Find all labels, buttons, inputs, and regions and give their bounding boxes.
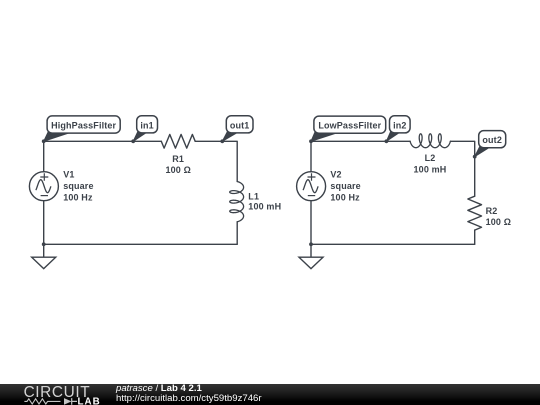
net flag out2 (475, 131, 506, 157)
footer bar (0, 384, 540, 405)
wire bottom rail right circuit (311, 243, 475, 245)
svg-text:out2: out2 (482, 135, 502, 145)
node in2 junction (385, 139, 389, 143)
svg-text:out1: out1 (230, 120, 250, 130)
ground GND left (32, 244, 56, 268)
net flag in1 (133, 116, 157, 142)
inductor L1 (230, 182, 244, 222)
svg-text:L1: L1 (248, 192, 259, 202)
resistor R1 (161, 134, 195, 148)
svg-text:100 Ω: 100 Ω (486, 217, 511, 227)
node in1 junction (131, 139, 135, 143)
svg-text:100 mH: 100 mH (248, 201, 281, 211)
svg-text:100 Hz: 100 Hz (63, 193, 93, 203)
net flag in2 (386, 116, 410, 142)
svg-text:in1: in1 (140, 120, 153, 130)
svg-text:100 mH: 100 mH (414, 164, 447, 174)
node out2 junction (473, 155, 477, 159)
svg-text:HighPassFilter: HighPassFilter (51, 121, 116, 131)
wire L2 right terminal to out2 corner down to R2 (450, 141, 474, 196)
svg-text:L2: L2 (425, 153, 436, 163)
wire V2 top to in2 node (311, 140, 386, 142)
wire in2 node to L2 left terminal (386, 140, 410, 142)
node out1 junction (220, 139, 224, 143)
svg-text:square: square (63, 181, 93, 191)
wire R1 right terminal to out1 corner (195, 141, 237, 181)
resistor R2 (468, 196, 482, 230)
svg-text:100 Ω: 100 Ω (165, 165, 190, 175)
inductor L2 (410, 134, 450, 148)
voltage source V2 (297, 172, 326, 201)
wire V1 top to in1 node (44, 140, 134, 142)
CircuitLab logo (0, 384, 112, 405)
svg-text:LAB: LAB (78, 397, 101, 405)
footer title and url text (116, 384, 262, 405)
node HighPassFilter junction (42, 139, 46, 143)
svg-text:100 Hz: 100 Hz (330, 193, 360, 203)
svg-text:LowPassFilter: LowPassFilter (318, 121, 381, 131)
logo resistor glyph (24, 399, 60, 404)
wire in1 node to R1 left terminal (133, 140, 161, 142)
wire V2 plus terminal (310, 141, 312, 171)
wire L1 bottom to bottom rail (236, 222, 238, 245)
wire bottom rail left circuit (44, 243, 238, 245)
svg-text:R1: R1 (172, 154, 184, 164)
logo diode glyph (64, 398, 72, 405)
node LowPassFilter junction (309, 139, 313, 143)
voltage source V1 (29, 172, 58, 201)
wire R2 bottom to bottom rail (474, 230, 476, 244)
net flag HighPassFilter (44, 116, 121, 141)
wire V1 plus terminal (43, 141, 45, 171)
node ground junction right (309, 242, 313, 246)
svg-text:V2: V2 (330, 169, 341, 179)
svg-text:square: square (330, 181, 360, 191)
svg-text:V1: V1 (63, 169, 74, 179)
wire V1 minus terminal to ground junction (43, 201, 45, 245)
svg-text:in2: in2 (393, 120, 406, 130)
net flag LowPassFilter (311, 116, 386, 141)
node ground junction left (42, 242, 46, 246)
ground GND right (299, 244, 323, 268)
wire V2 minus terminal to ground junction (310, 201, 312, 245)
net flag out1 (222, 116, 253, 142)
svg-text:R2: R2 (486, 206, 498, 216)
